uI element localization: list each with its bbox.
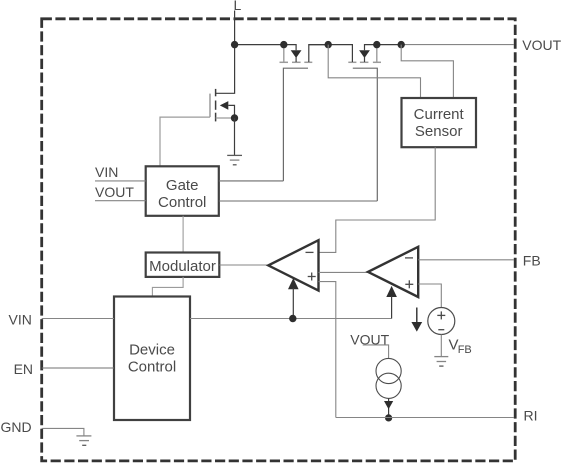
wire Gate Control to Q2 gate (219, 200, 377, 202)
ground (Q3) (227, 154, 242, 156)
Q2 left terminal (328, 45, 352, 62)
node Q3 source junction (231, 114, 238, 121)
ground (VFB) (434, 356, 448, 358)
wire GND pin (42, 428, 84, 435)
svg-text:GND: GND (1, 419, 32, 435)
transistor Q2 (328, 45, 381, 201)
Q2 body branch wire (365, 45, 377, 51)
block Modulator (146, 253, 220, 277)
svg-text:VIN: VIN (95, 164, 118, 180)
arrow current direction (VFB) (416, 308, 418, 324)
Q1 channel bars (280, 61, 289, 63)
wire top rail: node D to VOUT pin (401, 44, 514, 46)
wire top rail: node C to node D (377, 44, 401, 46)
Q2 channel bars (348, 61, 356, 63)
Q1 left terminal (283, 46, 285, 62)
block Device Control (114, 297, 190, 421)
wire node D to Current Sensor right input (401, 45, 453, 98)
Q3 body wire (228, 105, 234, 118)
node A junction (280, 41, 287, 48)
arrow into U1 bottom (288, 278, 299, 289)
svg-text:Current: Current (414, 106, 465, 123)
Q3 body diode arrow (220, 101, 229, 110)
op-amp U2 (368, 247, 418, 297)
svg-text:FB: FB (458, 344, 472, 356)
wire Device Control to op-amp supply branches (190, 318, 392, 320)
wire U1 arrow riser (292, 288, 294, 319)
wire Gate Control to Modulator (182, 216, 184, 253)
ground (GND pin) (76, 435, 91, 437)
svg-text:FB: FB (523, 253, 541, 269)
wire op-amp U2 output to U1 non-inverting input (319, 271, 369, 273)
svg-text:VIN: VIN (9, 312, 32, 328)
Q1 body diode arrow (291, 50, 302, 58)
svg-text:Gate: Gate (166, 177, 199, 194)
wire Modulator to Device Control (152, 277, 183, 297)
node RI junction (385, 414, 392, 421)
wire current source output arrow (388, 398, 390, 418)
wire RI line (336, 417, 514, 419)
block Gate Control (146, 166, 219, 216)
wire U2 arrow riser (391, 296, 393, 319)
wire L pin vertical (234, 11, 236, 45)
svg-text:Sensor: Sensor (415, 123, 463, 140)
Q2 body diode arrow (359, 50, 370, 58)
transistor Q1 (280, 45, 329, 181)
Q3 source wire (216, 117, 235, 119)
svg-text:VOUT: VOUT (95, 184, 134, 200)
wire Current Sensor output to op-amp U1 inverting input (319, 147, 436, 252)
wire EN pin to Device Control (42, 367, 114, 369)
op-amp U1 (268, 240, 318, 290)
node C junction (373, 41, 380, 48)
Q1 right terminal (309, 45, 328, 62)
node VIN branch junction (289, 315, 296, 322)
block Current Sensor (402, 98, 477, 147)
Q3 channel bars (215, 89, 217, 96)
wire U1 lower terminal to RI line (319, 282, 336, 418)
wire VFB to ground (440, 335, 442, 357)
Q2 right terminal (376, 46, 378, 62)
wire Gate Control to Q1 gate (219, 180, 284, 182)
node L junction (231, 41, 238, 48)
wire VOUT to current source (363, 345, 389, 359)
Q2 gate (353, 68, 378, 201)
node D junction (398, 41, 405, 48)
voltage source VFB (428, 308, 455, 335)
wire Q3 source to ground (234, 118, 236, 155)
svg-text:Modulator: Modulator (149, 258, 216, 275)
svg-text:VOUT: VOUT (522, 37, 561, 53)
wire VIN to Gate Control (95, 180, 146, 182)
node B junction (325, 41, 332, 48)
wire U2 inverting input to FB pin (418, 259, 514, 261)
wire top rail: L node to Q1 source (235, 44, 284, 46)
wire node B to Current Sensor left input (328, 45, 420, 98)
svg-text:RI: RI (524, 408, 538, 424)
wire Modulator to op-amp U1 output (219, 264, 268, 266)
svg-text:EN: EN (14, 361, 33, 377)
Q3 drain wire from L node (216, 45, 235, 94)
arrow into U2 bottom (386, 286, 397, 297)
svg-text:Control: Control (158, 194, 206, 211)
wire VIN pin to Device Control (42, 318, 114, 320)
Q1 body branch wire (284, 45, 296, 51)
Q3 gate bar (209, 94, 211, 118)
svg-text:Control: Control (128, 359, 176, 376)
current source I1 (376, 358, 401, 398)
Q3 gate wire to Gate Control (160, 117, 210, 166)
svg-text:Device: Device (129, 342, 175, 359)
wire U2 non-inverting input to VFB source (418, 284, 441, 307)
wire top rail: Q1 drain to node B (309, 44, 328, 46)
Q1 gate (283, 68, 308, 181)
transistor Q3 (160, 45, 242, 167)
wire VOUT to Gate Control (95, 200, 146, 202)
